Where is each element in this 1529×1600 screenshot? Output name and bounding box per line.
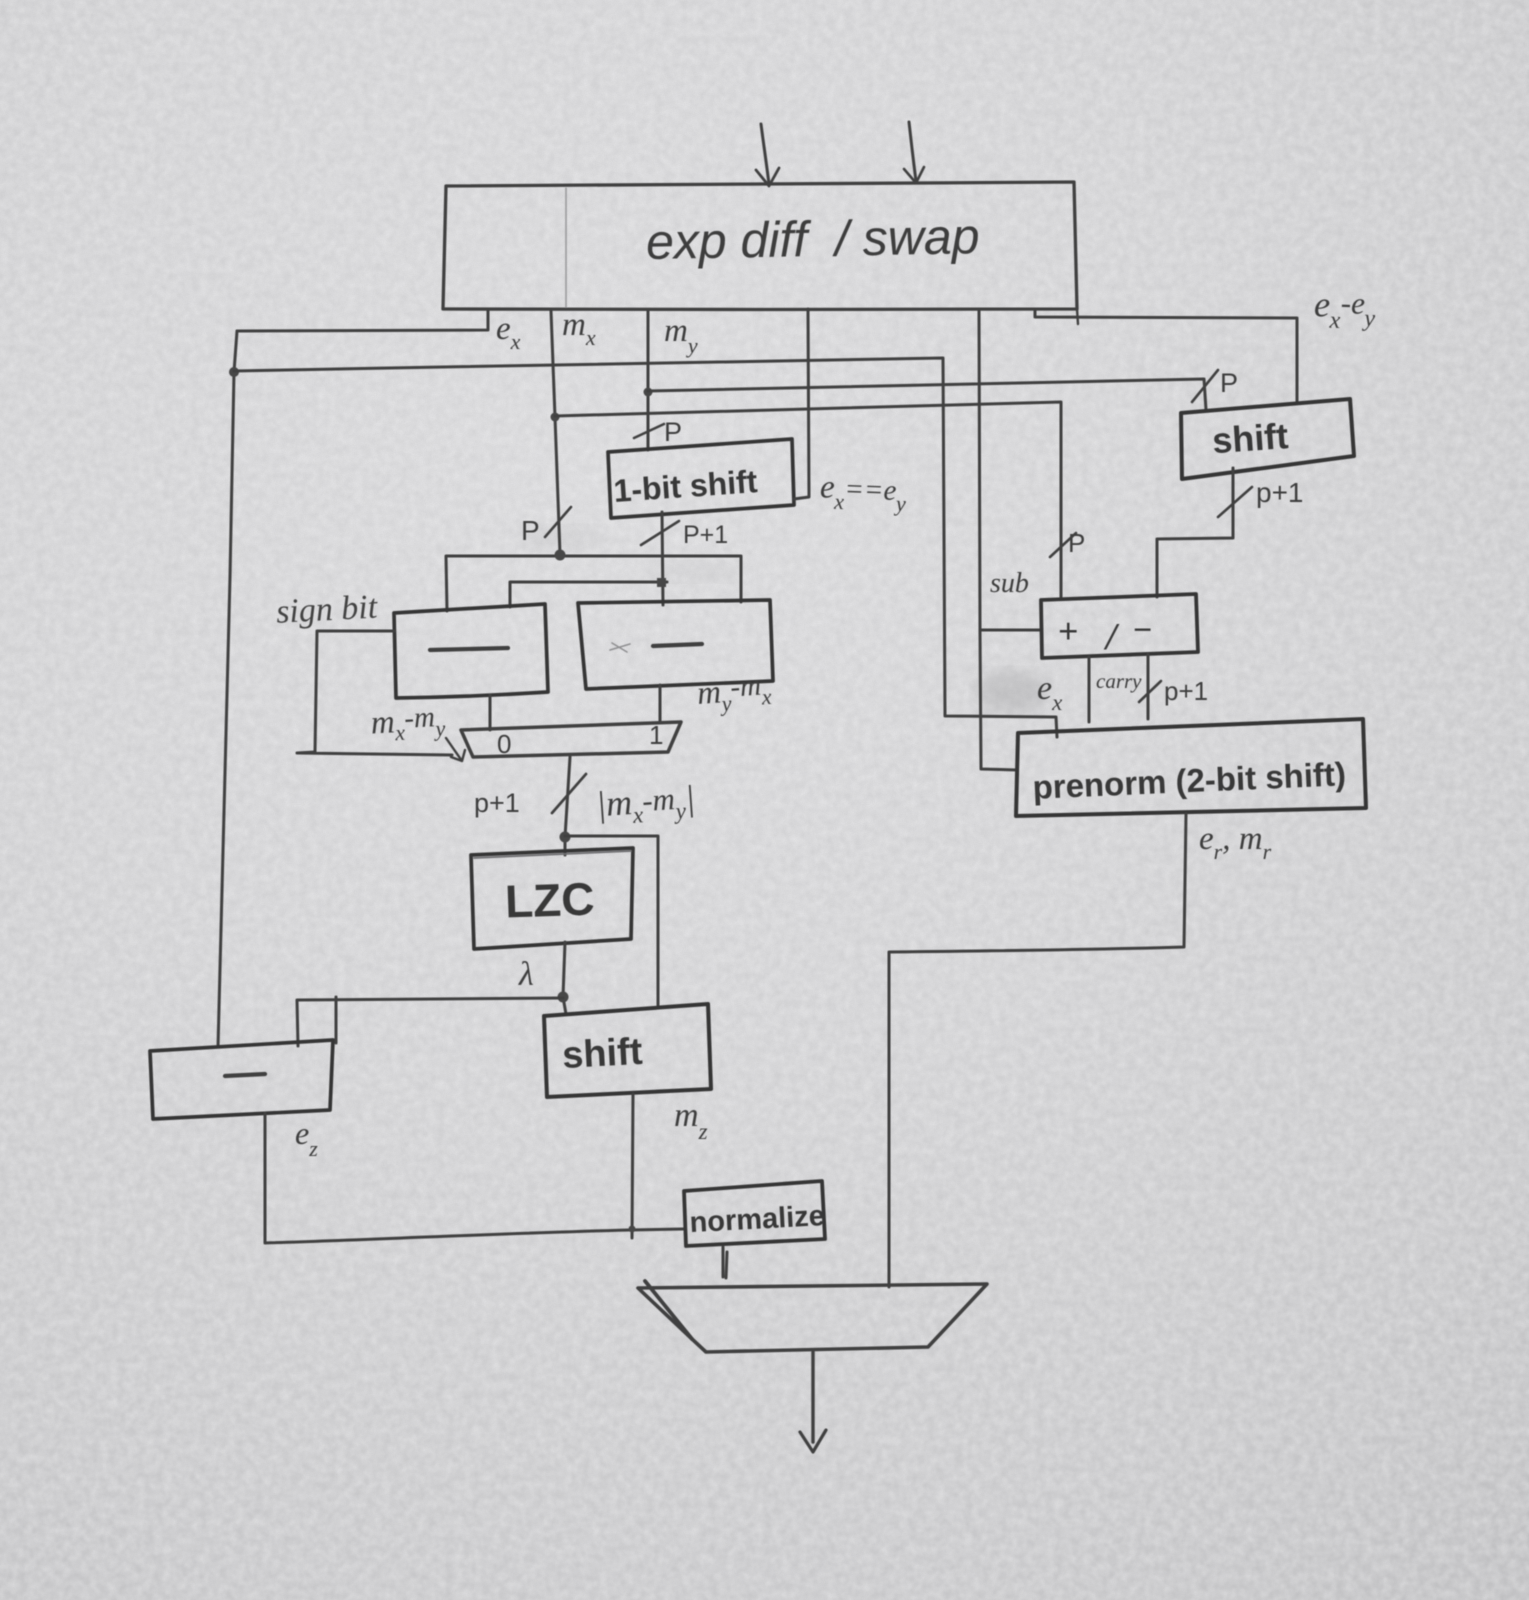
wire: sub control from exp diff to +/- and prenorm (979, 311, 1041, 770)
wire: e_x branch across to prenorm (234, 358, 1057, 737)
svg-text:P: P (1220, 368, 1238, 398)
wire: LZC output lambda (563, 942, 566, 1014)
svg-text:−: − (1133, 612, 1152, 649)
wire: m_x branch to +/- P input (555, 402, 1061, 598)
tick: p+1 slash below +/- (1139, 681, 1161, 702)
svg-text:shift: shift (561, 1031, 644, 1077)
svg-text:p+1: p+1 (474, 788, 520, 818)
input arrow left (761, 124, 769, 184)
node: m_z junction (629, 1226, 636, 1233)
svg-text:p+1: p+1 (1256, 477, 1304, 508)
mux M2: output selector trapezoid (638, 1284, 987, 1352)
tick: p+1 slash below right shift (1218, 487, 1252, 517)
arrow: final output (811, 1352, 814, 1442)
wire: operand loop m_y to both subtractors (510, 582, 667, 607)
wire: p+1 from 1-bit shift down to right subtractor (662, 512, 663, 605)
tick: p+1 slash below 1-bit shift (641, 521, 679, 545)
svg-text:p+1: p+1 (1164, 676, 1208, 706)
wire: e_z box right edge overshoot (335, 997, 338, 1043)
wire: branch right to middle shift box (565, 836, 658, 1008)
wire: carry lines from +/- to prenorm (1089, 654, 1148, 722)
wire: e_x - e_y from exp diff to right shift (1035, 309, 1297, 402)
svg-text:λ: λ (518, 956, 534, 993)
node: m_x joins loop (555, 550, 566, 561)
block: normalize (684, 1181, 825, 1246)
node: m_x branch junction (551, 413, 560, 422)
svg-text:P+1: P+1 (683, 521, 728, 549)
svg-text:shift: shift (1211, 415, 1290, 461)
tick: p+1 slash on mux output (552, 774, 586, 813)
block: +/- adder (1041, 594, 1198, 658)
tick: P slash on +/- input (1050, 533, 1076, 557)
wire: m_y output of exp diff (647, 311, 650, 450)
block: 1-bit shift (608, 439, 794, 518)
mux M1: |difference| selector trapezoid (461, 722, 681, 757)
block: subtractor m_y - m_x (578, 600, 773, 689)
node: lambda junction (558, 992, 569, 1003)
tick: P slash at right shift input (1192, 370, 1218, 402)
svg-text:LZC: LZC (504, 872, 595, 927)
svg-text:exp diff / swap: exp diff / swap (646, 208, 980, 270)
wire: normalize output to output mux (723, 1247, 727, 1278)
wire: e_x output of exp diff down-left to rail (237, 309, 488, 331)
svg-text:carry: carry (1096, 669, 1142, 693)
svg-text:sub: sub (990, 568, 1029, 599)
tick: -P slash above 1-bit shift (634, 424, 664, 438)
smudge near e_x label (976, 670, 1048, 714)
wire: e_r,m_r feedback to output mux (889, 814, 1186, 1287)
wire: shifted m_y from right shift to +/- (1157, 468, 1233, 597)
svg-text:sign bit: sign bit (275, 588, 379, 630)
input arrow right (909, 122, 916, 181)
wire: subtractor left output to mux (489, 695, 492, 730)
block: LZC (471, 848, 633, 949)
wire: lambda to e_z subtractor (297, 998, 563, 1046)
svg-text:P: P (521, 515, 540, 546)
block: shift (right) (1181, 399, 1354, 479)
block: subtractor m_x - m_y (394, 604, 548, 698)
block: prenorm (2-bit shift) (1016, 719, 1366, 816)
svg-text:P: P (664, 417, 682, 447)
node: p+1 joins loop (657, 578, 666, 587)
wire: m_x output of exp diff (551, 311, 560, 554)
block: shift (middle) (544, 1004, 711, 1097)
wire: left rail down to e_z subtractor (218, 331, 237, 1047)
svg-text:1: 1 (649, 720, 663, 750)
block: subtractor e_z (150, 1040, 333, 1119)
wire: operand loop m_x to both subtractors (446, 556, 741, 611)
svg-text:+: + (1058, 611, 1079, 651)
node: junction above LZC (560, 832, 571, 843)
svg-text:0: 0 (497, 729, 511, 759)
node: m_y branch junction (644, 388, 653, 397)
tick: P slash on m_x vertical (545, 507, 571, 537)
node: e_x branch junction (229, 367, 239, 377)
svg-text:P: P (1068, 528, 1085, 558)
arrowhead: mux select (446, 738, 465, 761)
wire: e_z output to normalize (265, 1113, 683, 1243)
wire: sign bit from subtractor to mux select (297, 631, 452, 755)
wire: mux output down to LZC (565, 757, 570, 855)
wire: m_z output of shift to normalize junction (632, 1094, 633, 1238)
wire: subtractor right output to mux (659, 685, 662, 722)
wire: m_y branch to right shift P input (648, 379, 1206, 410)
block U1: exp diff / swap (443, 182, 1078, 324)
wire: e_x==e_y control from exp diff to 1-bit shift (794, 309, 809, 499)
